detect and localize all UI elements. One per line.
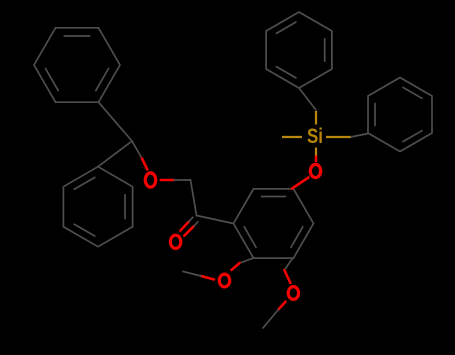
wire: Si methyl (gold, left) xyxy=(282,136,302,138)
svg-text:Si: Si xyxy=(307,125,323,148)
wire: central ring to methoxy O2 (red part) xyxy=(284,270,290,283)
central benzene ring xyxy=(234,189,314,258)
methoxy oxygen O2 xyxy=(288,287,298,300)
wire: ring A to benzhydryl CH xyxy=(99,102,133,141)
wire: benzhydryl CH to ring B xyxy=(98,141,132,167)
wire: silyl O to Si (red half) xyxy=(315,156,318,162)
wire: ether O to CH2 (red half) xyxy=(161,179,174,182)
wire: CH2 to carbonyl carbon xyxy=(191,180,197,216)
wire: methoxy O1 to CH3 (black part) xyxy=(183,272,201,277)
wire: methoxy O2 to CH3 (black part) xyxy=(263,310,278,329)
wire: Si to phenyl D (gold, right) xyxy=(326,136,351,138)
wire: silyl O to Si (goldenrod half) xyxy=(315,148,317,156)
wire: central ring to methoxy O1 (black part) xyxy=(240,258,254,263)
wire: ring C to Si (black part) xyxy=(299,88,316,110)
silyl ether oxygen O xyxy=(310,164,320,177)
wire: Si to ring D (black part) xyxy=(351,134,368,138)
wire: central ring to methoxy O1 (red part) xyxy=(232,263,240,270)
wire: CH to ether O (black half) xyxy=(132,141,142,159)
wire: carbonyl carbon to central ring xyxy=(197,216,234,224)
ketone oxygen O xyxy=(170,235,180,248)
wire: central ring to methoxy O2 (black part) xyxy=(284,259,292,271)
wire: methoxy O2 to CH3 (red part) xyxy=(278,302,285,310)
phenyl ring C (on Si, top) xyxy=(266,12,332,88)
wire: central ring to silyl O (red) xyxy=(292,178,309,189)
wire: ether O to CH2 (black half) xyxy=(174,179,191,181)
phenyl ring B (benzhydryl phenyl 2) xyxy=(63,167,132,247)
phenyl ring D (on Si, right) xyxy=(368,78,432,152)
wire: Si to phenyl C (gold, up) xyxy=(315,111,317,125)
ketone C=O double bond (black joins) xyxy=(189,217,193,221)
phenyl ring A (benzhydryl phenyl 1) xyxy=(34,28,120,102)
ketone C=O double bond (red lines) xyxy=(180,222,188,231)
wire: methoxy O1 to CH3 (red part) xyxy=(201,276,214,280)
wire: CH to ether O (red half) xyxy=(142,159,147,170)
ether oxygen O (benzhydryl ether) xyxy=(145,173,155,187)
methoxy oxygen O1 xyxy=(219,274,229,287)
